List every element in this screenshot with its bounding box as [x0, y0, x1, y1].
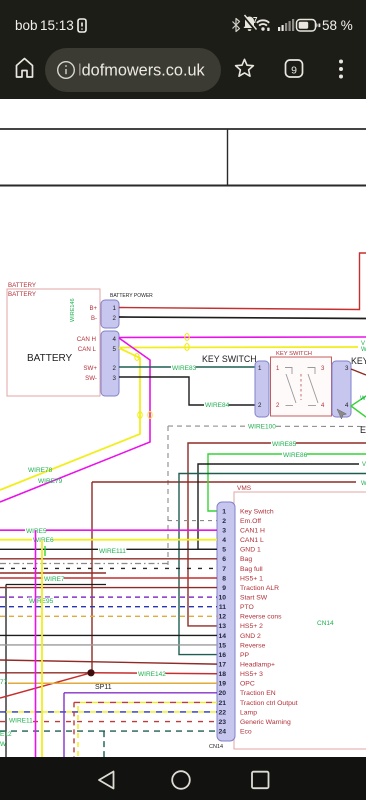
home icon	[17, 59, 33, 78]
VMS connector CN14	[217, 502, 235, 741]
svg-text:WIRE111: WIRE111	[99, 548, 126, 555]
svg-text:77: 77	[0, 679, 8, 686]
wire purple to pin 20	[64, 692, 217, 694]
wire navy/yellow dashed to pin 22	[0, 711, 217, 713]
VMS outline box	[234, 492, 366, 749]
wire WIRE111 black to pin 5	[0, 548, 217, 550]
wire label WIRE100	[247, 423, 275, 431]
wire maroon to pin 9	[0, 587, 217, 589]
wire label WIRE86	[282, 452, 307, 460]
svg-text:W: W	[360, 396, 366, 402]
wire orange to pin 19	[8, 682, 217, 684]
svg-text:3: 3	[345, 365, 349, 372]
dashed boundary left horizontal	[0, 563, 168, 565]
svg-text:SW-: SW-	[85, 375, 97, 382]
svg-text:BATTERY: BATTERY	[27, 353, 73, 364]
svg-text:4: 4	[345, 402, 349, 409]
wire label WIRE111	[98, 548, 126, 556]
svg-text:1: 1	[222, 508, 226, 515]
svg-text:8: 8	[222, 575, 226, 582]
svg-text:2: 2	[113, 365, 117, 372]
svg-text:1: 1	[113, 305, 117, 312]
svg-text:15:13: 15:13	[40, 18, 74, 33]
wire maroon upper left shelf	[0, 572, 106, 574]
wire label WIRE11	[8, 717, 33, 725]
svg-text:VMS: VMS	[237, 485, 252, 492]
svg-text:15: 15	[218, 642, 226, 649]
battery connector block upper (pins 1,2)	[101, 300, 119, 328]
tab counter	[286, 60, 303, 77]
svg-text:GND 2: GND 2	[240, 633, 261, 640]
svg-text:11: 11	[219, 604, 226, 611]
junction SP11	[87, 669, 94, 676]
svg-text:58 %: 58 %	[322, 18, 353, 33]
wire label WIRE85	[271, 441, 296, 449]
wire black to pin 14	[0, 634, 217, 636]
wire label WIRE142	[137, 671, 165, 679]
wire WIRE85 dark red	[188, 443, 366, 626]
svg-text:WIRE86: WIRE86	[283, 452, 308, 459]
svg-text:6: 6	[222, 556, 226, 563]
svg-text:CAN L: CAN L	[78, 346, 97, 353]
wire B+ red to top right	[119, 253, 366, 310]
svg-text:Traction ctrl Output: Traction ctrl Output	[240, 700, 298, 707]
title block bottom line	[0, 185, 366, 187]
svg-text:WIRE79: WIRE79	[38, 478, 63, 485]
svg-text:18: 18	[218, 671, 226, 678]
battery icon	[297, 20, 321, 32]
wire WIRE5 magenta to pin 3	[0, 529, 217, 531]
svg-text:HS5+ 3: HS5+ 3	[240, 671, 263, 678]
svg-text:V: V	[362, 462, 366, 468]
svg-text:Reverse: Reverse	[240, 642, 266, 649]
wire gray to pin 15	[0, 644, 217, 646]
svg-text:CN14: CN14	[317, 620, 334, 627]
battery BATTERY outline box	[7, 289, 100, 396]
svg-text:22: 22	[218, 709, 226, 716]
svg-text:W: W	[361, 481, 366, 487]
svg-text:2: 2	[258, 402, 262, 409]
svg-text:W: W	[0, 741, 7, 748]
svg-text:9: 9	[222, 585, 226, 592]
wire label WIRE83	[171, 365, 196, 373]
svg-text:SP11: SP11	[95, 684, 112, 691]
svg-text:3: 3	[113, 375, 117, 382]
svg-text:E12: E12	[0, 731, 12, 738]
twisted pair marker	[135, 354, 139, 361]
dashed boundary vertical	[167, 426, 169, 565]
title block divider	[227, 129, 229, 186]
wire navy dashed to pin 11	[0, 606, 217, 608]
svg-text:bob: bob	[15, 18, 38, 33]
svg-text:CN14: CN14	[209, 744, 223, 750]
svg-text:B+: B+	[89, 306, 97, 312]
wire SW- black WIRE84	[119, 377, 255, 405]
svg-text:13: 13	[218, 623, 226, 630]
svg-text:Lamp: Lamp	[240, 709, 257, 716]
wire WIRE6 yellow to pin 4	[0, 539, 217, 541]
svg-text:WIRE78: WIRE78	[28, 467, 53, 474]
svg-text:5: 5	[222, 547, 226, 554]
svg-text:E: E	[360, 425, 366, 435]
svg-text:2: 2	[113, 315, 117, 322]
title block top line	[0, 128, 366, 130]
wire orange dashed to pin 12	[0, 615, 217, 617]
twisted pair marker	[138, 412, 142, 419]
twisted pair marker	[185, 334, 189, 341]
wire black gnd run	[198, 464, 359, 549]
svg-text:19: 19	[218, 681, 226, 688]
wire CAN H magenta horizontal	[119, 336, 366, 339]
svg-text:17: 17	[218, 662, 226, 669]
svg-text:24: 24	[218, 729, 226, 736]
svg-text:Reverse cons: Reverse cons	[240, 614, 282, 621]
svg-text:7: 7	[222, 566, 226, 573]
svg-text:9: 9	[291, 65, 297, 77]
wires from key switch pin 4 green	[351, 396, 366, 417]
svg-text:WIRE5: WIRE5	[26, 528, 47, 535]
svg-text:HS5+ 2: HS5+ 2	[240, 623, 263, 630]
wire label WIRE95	[28, 598, 53, 606]
wire label WIRE5	[25, 528, 46, 536]
kebab menu	[339, 60, 343, 79]
svg-text:WIRE11: WIRE11	[9, 718, 33, 725]
key switch contacts	[285, 368, 318, 406]
svg-text:W: W	[361, 347, 366, 353]
svg-text:Bag: Bag	[240, 556, 252, 563]
svg-text:16: 16	[218, 652, 226, 659]
svg-text:CAN1 H: CAN1 H	[240, 528, 265, 535]
key switch body box	[271, 357, 332, 416]
key switch right connector	[332, 361, 351, 417]
svg-text:OPC: OPC	[240, 681, 255, 688]
svg-text:23: 23	[218, 719, 226, 726]
wire label WIRE6	[32, 537, 53, 545]
svg-text:20: 20	[218, 690, 226, 697]
wire CAN L yellow horizontal	[119, 346, 358, 349]
svg-text:PP: PP	[240, 652, 250, 659]
svg-text:Traction ALR: Traction ALR	[240, 585, 279, 592]
star bookmark	[236, 59, 254, 76]
wire maroon into SP11	[0, 672, 91, 674]
twisted pair marker	[148, 412, 152, 419]
svg-text:CAN H: CAN H	[77, 336, 96, 343]
svg-text:4: 4	[113, 336, 117, 343]
svg-text:Traction EN: Traction EN	[240, 690, 276, 697]
svg-text:Em.Off: Em.Off	[240, 518, 261, 525]
svg-text:WIRE85: WIRE85	[272, 441, 297, 448]
dashed boundary horizontal WIRE100	[168, 425, 366, 428]
wire CAN H magenta drop	[0, 338, 150, 502]
vertical magenta x35	[35, 530, 37, 757]
vertical red dashed x74	[73, 702, 75, 757]
svg-text:PTO: PTO	[240, 604, 254, 611]
svg-text:BATTERY: BATTERY	[8, 291, 36, 298]
wire B- black	[119, 317, 366, 319]
svg-text:HS5+ 1: HS5+ 1	[240, 575, 263, 582]
wire label WIRE84	[204, 402, 229, 410]
svg-text:SW+: SW+	[83, 365, 97, 372]
svg-text:BATTERY: BATTERY	[8, 282, 36, 289]
green stub x45	[44, 546, 46, 556]
svg-text:Generic Warning: Generic Warning	[240, 719, 291, 726]
wire red diagonal into SP11	[0, 673, 91, 698]
wire maroon to pin 6	[0, 558, 217, 560]
wire teal dashed to pin 24	[0, 730, 217, 732]
wire black shelf x6	[6, 585, 106, 758]
svg-text:CAN1 L: CAN1 L	[240, 537, 264, 544]
browser chrome top bar	[0, 0, 366, 99]
svg-text:10: 10	[218, 595, 226, 602]
signal bars	[278, 19, 294, 31]
svg-text:Eco: Eco	[240, 729, 252, 736]
wire red/yellow dashed to pin 21	[74, 701, 217, 703]
wire teal run	[179, 474, 366, 655]
wire maroon to pin 17	[0, 660, 217, 664]
svg-text:Key Switch: Key Switch	[240, 508, 274, 515]
wire CAN L yellow drop	[0, 348, 140, 490]
wire WIRE7 red to pin 8	[0, 577, 217, 579]
svg-text:21: 21	[218, 700, 226, 707]
vertical teal dashed x104	[103, 731, 105, 757]
notifications off bell	[244, 15, 257, 31]
svg-text:5: 5	[113, 346, 117, 353]
svg-text:12: 12	[218, 614, 226, 621]
vertical yellow x42	[41, 540, 43, 757]
svg-text:BATTERY POWER: BATTERY POWER	[110, 293, 153, 299]
svg-text:KEY SWITCH: KEY SWITCH	[202, 354, 257, 364]
wire WIRE11 red dashed to pin 23	[0, 721, 217, 723]
svg-text:1: 1	[258, 365, 262, 372]
svg-text:WIRE100: WIRE100	[248, 424, 276, 431]
vertical yellow dashed x78	[77, 706, 79, 757]
key switch left connector	[255, 361, 269, 417]
svg-text:KEY: KEY	[351, 356, 366, 366]
svg-text:WIRE83: WIRE83	[172, 365, 197, 372]
wire label WIRE7	[43, 576, 64, 584]
svg-text:2: 2	[222, 518, 226, 525]
svg-text:Start SW: Start SW	[240, 595, 268, 602]
svg-text:B-: B-	[91, 316, 97, 322]
url pill	[45, 48, 221, 92]
svg-text:ldofmowers.co.uk: ldofmowers.co.uk	[78, 62, 206, 80]
wire to pin 2 gray dashed	[168, 520, 217, 522]
svg-text:4: 4	[222, 537, 226, 544]
svg-text:WIRE142: WIRE142	[138, 671, 166, 678]
svg-text:Bag full: Bag full	[240, 566, 263, 573]
svg-text:KEY SWITCH: KEY SWITCH	[276, 351, 312, 357]
svg-text:3: 3	[222, 528, 226, 535]
cursor arrow	[337, 409, 347, 419]
wire WIRE95 purple dashed to pin 10	[0, 596, 217, 598]
wire SW+ teal WIRE83	[119, 366, 255, 368]
svg-text:WIRE7: WIRE7	[44, 576, 65, 583]
wire WIRE142 red from SP11 to pin 18	[91, 672, 217, 675]
svg-text:WIRE84: WIRE84	[205, 402, 230, 409]
svg-text:GND 1: GND 1	[240, 547, 261, 554]
android navigation bar	[0, 757, 366, 800]
svg-text:WIRE146: WIRE146	[70, 298, 76, 322]
twisted pair marker	[185, 344, 189, 351]
svg-text:7: 7	[253, 16, 258, 25]
battery connector block lower (pins 4,5,2,3)	[101, 331, 119, 396]
svg-text:Headlamp+: Headlamp+	[240, 662, 275, 669]
svg-text:14: 14	[218, 633, 226, 640]
vertical purple x64	[63, 693, 65, 757]
wire black dashed to pin 7	[0, 567, 217, 569]
wire dark red corner left	[92, 482, 356, 672]
bluetooth	[233, 19, 240, 32]
wire from key switch pin 3 red	[351, 369, 366, 375]
wire WIRE86 green	[208, 454, 366, 511]
